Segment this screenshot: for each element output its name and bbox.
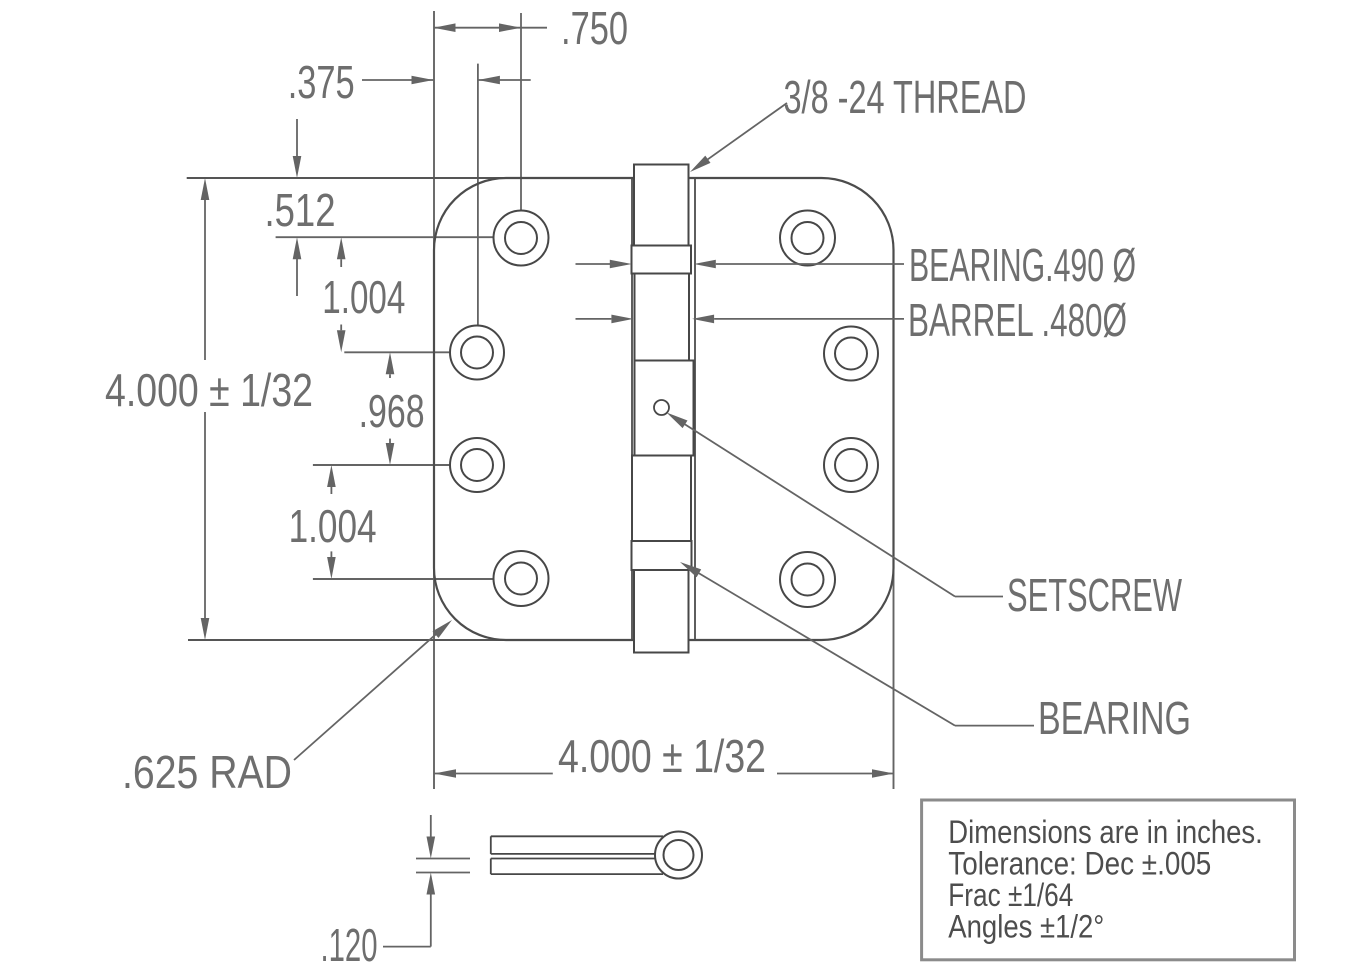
extension line: plate left edge column xyxy=(433,11,435,789)
plate bottom edge line (extended left) xyxy=(188,639,822,641)
svg-text:.512: .512 xyxy=(265,184,336,236)
svg-text:1.004: 1.004 xyxy=(322,271,405,323)
barrel .480 dia arrows xyxy=(576,315,905,324)
hole row line 2 xyxy=(344,351,449,353)
svg-text:4.000 ± 1/32: 4.000 ± 1/32 xyxy=(105,364,313,416)
dimension .512 arrows xyxy=(293,119,302,296)
barrel bearing ring upper xyxy=(632,246,692,274)
dimension .120 arrows and ticks xyxy=(383,815,470,947)
cotter pin top prong xyxy=(491,836,663,854)
dimension .968 arrows xyxy=(386,352,395,465)
cotter pin bottom prong xyxy=(491,859,663,875)
screw hole R3 xyxy=(824,438,878,492)
svg-text:BEARING: BEARING xyxy=(1038,692,1191,744)
screw hole R1 xyxy=(780,211,835,266)
dimension 1.004 upper arrows xyxy=(337,237,346,352)
screw hole R4 xyxy=(780,552,835,607)
svg-text:.120: .120 xyxy=(321,919,378,971)
notes box xyxy=(922,800,1295,960)
dimension .375 line and arrows xyxy=(362,76,531,85)
svg-text:.625 RAD: .625 RAD xyxy=(122,746,292,798)
right leaf fold line at barrel xyxy=(694,178,696,640)
dimension 4.000 +/- 1/32 vertical line and arrows xyxy=(201,178,210,640)
barrel bearing ring lower xyxy=(632,541,692,570)
svg-text:.968: .968 xyxy=(359,385,425,437)
bearing .490 dia arrows xyxy=(576,260,905,269)
svg-text:BEARING.490 Ø: BEARING.490 Ø xyxy=(909,239,1136,291)
svg-text:.750: .750 xyxy=(561,2,628,54)
barrel knuckle 2 (setscrew knuckle) xyxy=(635,361,694,456)
dimension 1.004 lower arrows xyxy=(327,465,336,579)
extension line: hole column x=478 (.375) xyxy=(477,64,479,326)
bearing leader line xyxy=(680,562,1034,726)
hole row line 4 xyxy=(313,578,494,580)
extension line: plate right edge column (bottom dim) xyxy=(893,250,895,789)
barrel knuckle 1 xyxy=(635,274,690,361)
screw hole L3 xyxy=(450,438,504,492)
cotter pin ring xyxy=(655,832,702,879)
screw hole L1 xyxy=(494,211,549,266)
left leaf fold line at barrel xyxy=(631,178,633,640)
hole row line 1 xyxy=(276,236,494,238)
extension line: hole column x=521 (.750) xyxy=(520,13,522,211)
barrel bottom knuckle xyxy=(634,570,689,653)
svg-text:Angles ±1/2°: Angles ±1/2° xyxy=(948,909,1104,945)
barrel pin tip (3/8-24 thread) xyxy=(634,165,689,246)
dimension .750 line and arrows xyxy=(434,23,548,32)
svg-text:SETSCREW: SETSCREW xyxy=(1007,569,1182,621)
setscrew leader line xyxy=(667,413,1004,597)
svg-text:1.004: 1.004 xyxy=(289,500,377,552)
.625 rad leader line xyxy=(294,620,452,760)
thread leader line xyxy=(690,103,787,172)
screw hole L4 xyxy=(494,551,549,606)
plate top edge line (extended left) xyxy=(187,177,822,179)
plate outline (hinge leaf plate, rounded corners) xyxy=(434,178,894,640)
setscrew hole circle xyxy=(654,400,669,415)
svg-text:BARREL .480Ø: BARREL .480Ø xyxy=(908,294,1127,346)
svg-text:3/8 -24 THREAD: 3/8 -24 THREAD xyxy=(784,71,1027,123)
svg-text:.375: .375 xyxy=(288,56,355,108)
dimension 4.000 +/- 1/32 bottom line and arrows xyxy=(434,769,894,778)
barrel knuckle 3 xyxy=(632,456,691,542)
screw hole R2 xyxy=(824,327,878,381)
svg-text:4.000 ± 1/32: 4.000 ± 1/32 xyxy=(558,730,766,782)
screw hole L2 xyxy=(450,326,504,380)
hole row line 3 xyxy=(313,464,450,466)
